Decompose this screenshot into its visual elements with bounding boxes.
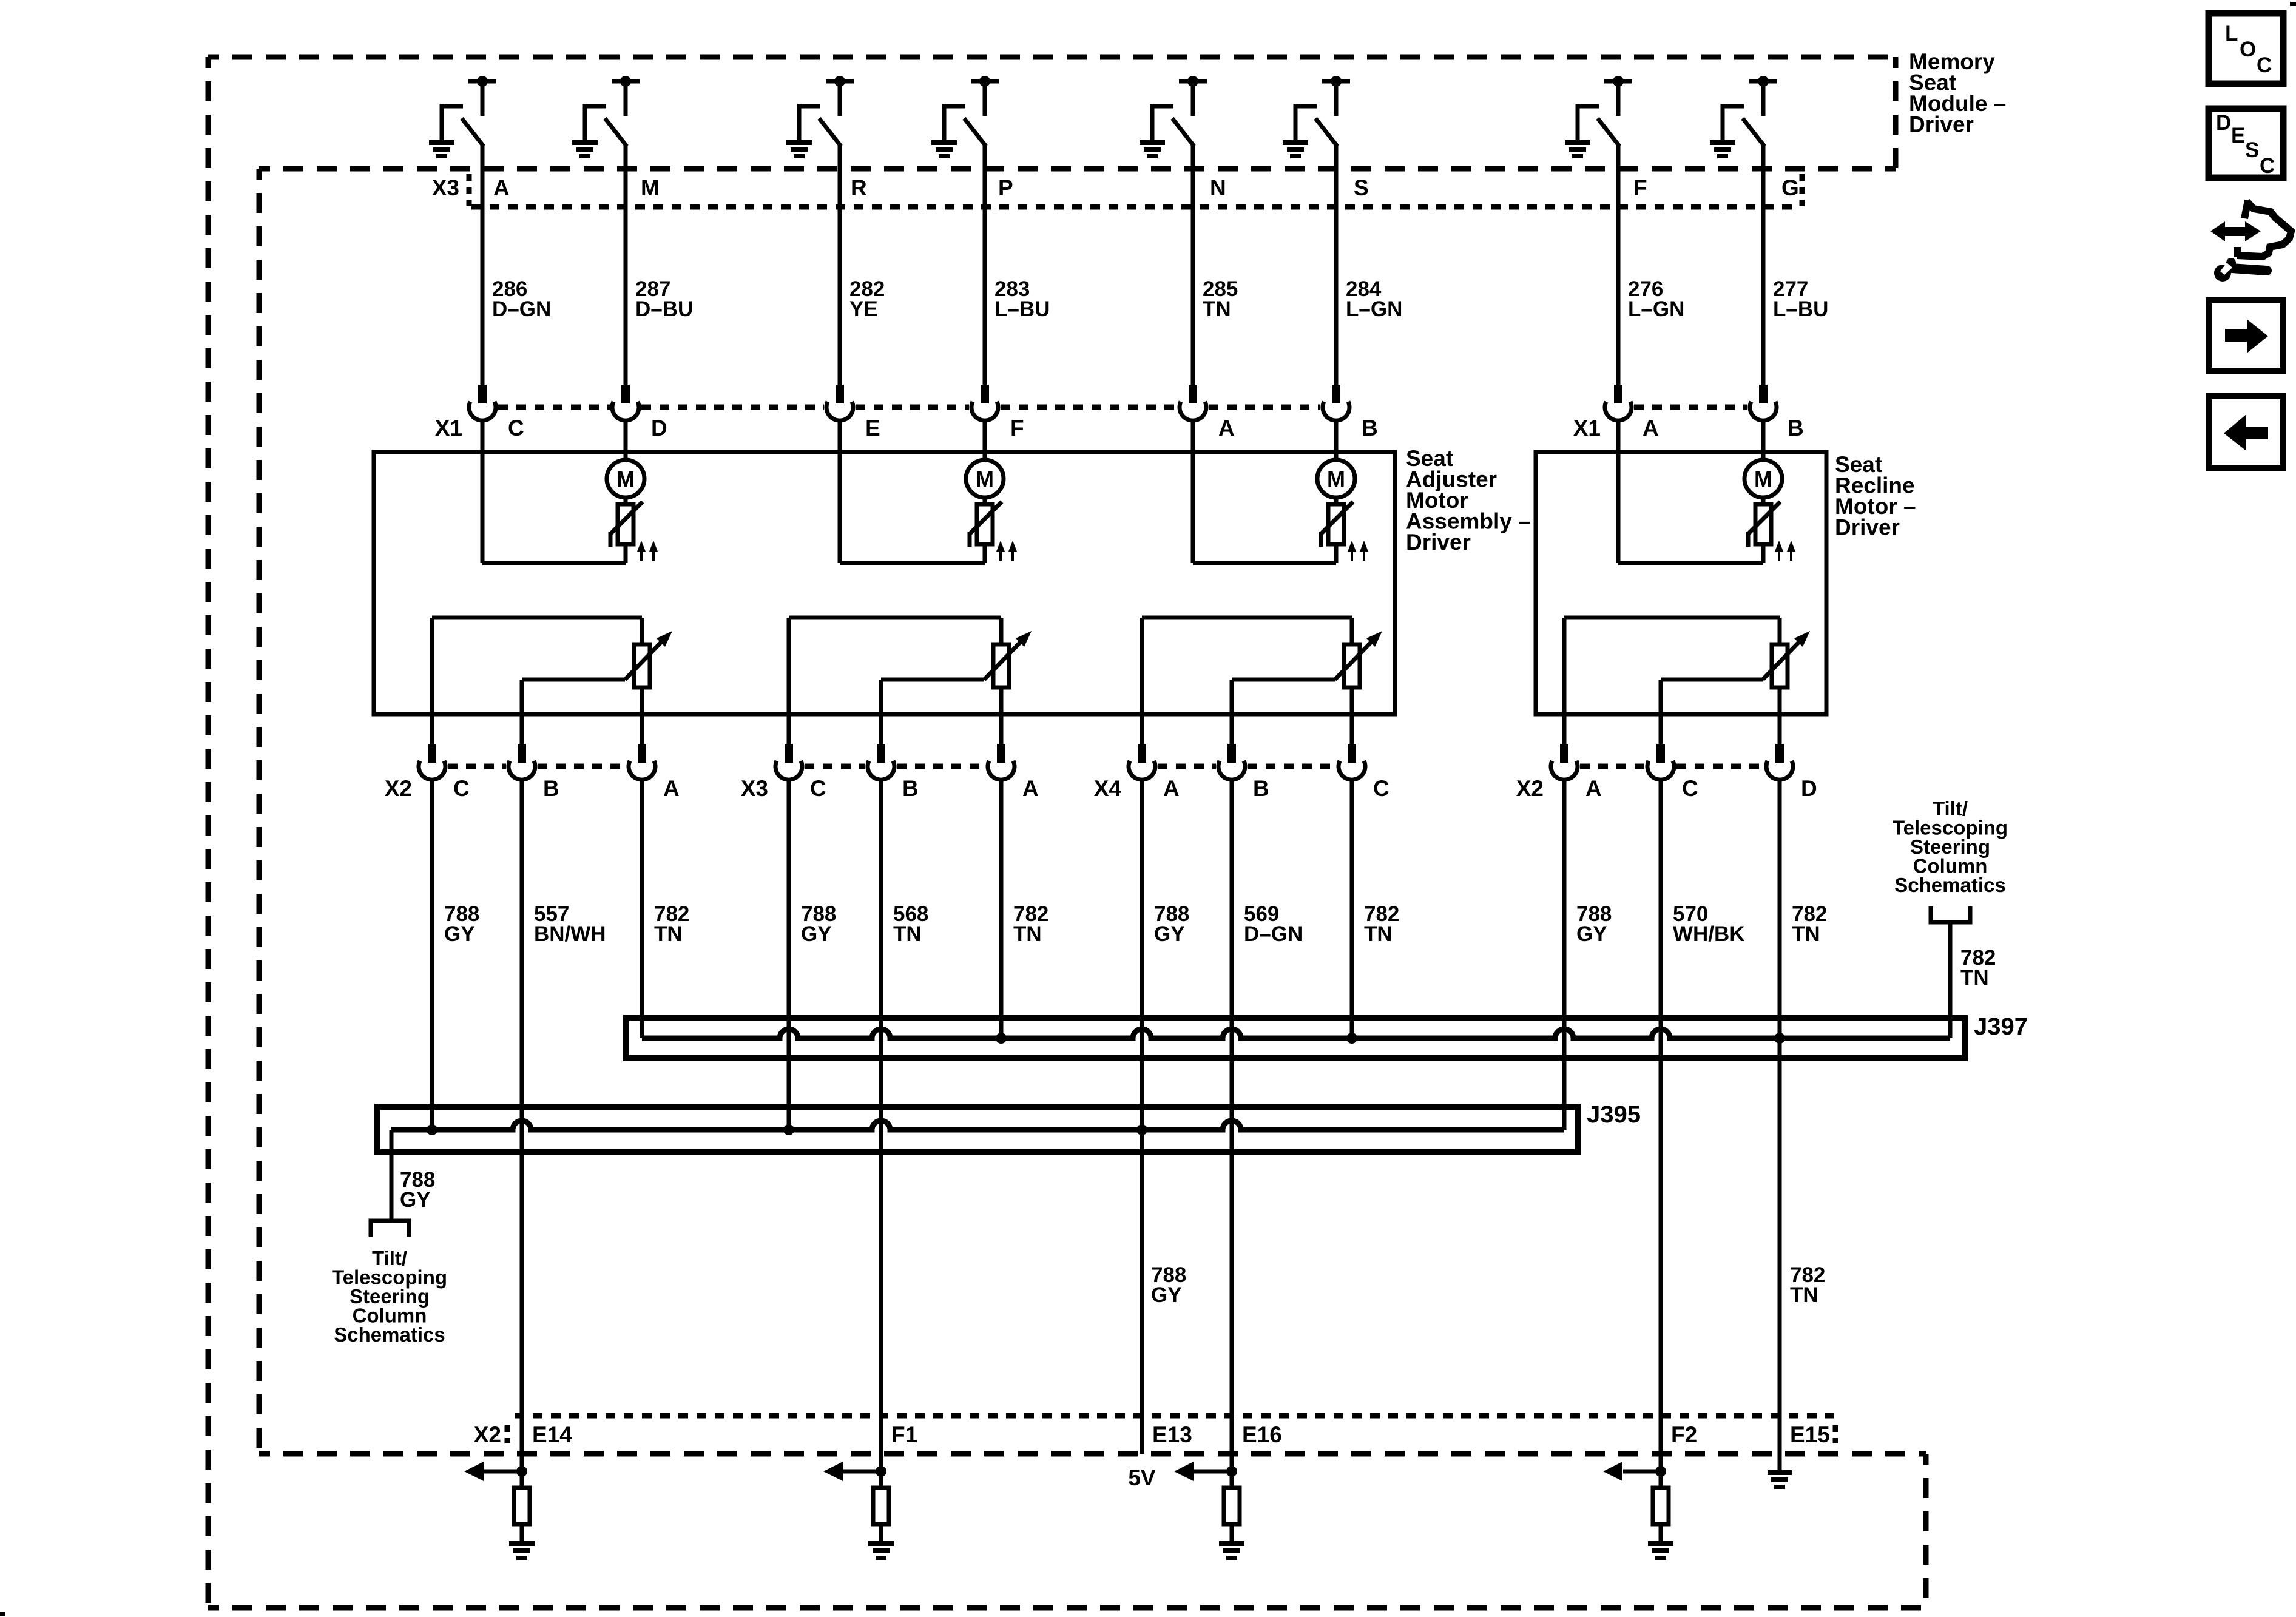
svg-text:Schematics: Schematics xyxy=(334,1323,445,1346)
svg-text:C: C xyxy=(1682,776,1698,801)
svg-text:A: A xyxy=(1643,416,1659,441)
wire 782 TN xyxy=(1778,779,1782,1470)
svg-text:GY: GY xyxy=(1154,922,1185,946)
position sensor potentiometer front height xyxy=(432,618,672,744)
svg-text:D–GN: D–GN xyxy=(492,297,551,321)
svg-text:E13: E13 xyxy=(1152,1422,1192,1447)
motor M horizontal xyxy=(1193,452,1368,563)
wire 283 P to X1 xyxy=(983,144,987,385)
svg-text:GY: GY xyxy=(400,1188,431,1212)
icon box arrow left xyxy=(2209,396,2283,468)
svg-text:BN/WH: BN/WH xyxy=(534,922,606,946)
splice pack J395 xyxy=(377,1107,1578,1152)
wire 276 F to X1 xyxy=(1616,144,1621,385)
svg-text:B: B xyxy=(543,776,559,801)
wire 782 TN xyxy=(999,779,1004,1038)
outer module dashed border bottom xyxy=(208,1605,1926,1611)
svg-text:5V: 5V xyxy=(1128,1465,1156,1490)
svg-text:F: F xyxy=(1010,416,1024,441)
wire 782 TN from tilt/telescoping (right) xyxy=(1948,922,1953,1038)
terminal X1 pin xyxy=(478,385,487,403)
svg-text:X3: X3 xyxy=(432,175,459,200)
svg-text:P: P xyxy=(998,175,1013,200)
svg-text:X2: X2 xyxy=(385,776,412,801)
svg-text:X4: X4 xyxy=(1094,776,1122,801)
svg-text:TN: TN xyxy=(1960,966,1989,990)
svg-text:C: C xyxy=(2260,154,2275,178)
connector X3 dotted row xyxy=(471,204,1797,210)
wire 287 M to X1 xyxy=(624,144,628,385)
terminal X3 pin C xyxy=(785,744,793,763)
switch S8 to ground (pin G) xyxy=(1710,76,1777,158)
svg-text:E: E xyxy=(865,416,880,441)
svg-text:WH/BK: WH/BK xyxy=(1673,922,1745,946)
inner dashed border top xyxy=(259,166,1896,172)
svg-text:S: S xyxy=(2245,138,2259,162)
icon box arrow right xyxy=(2209,300,2283,371)
wire 282 R to X1 xyxy=(838,144,842,385)
svg-text:X2: X2 xyxy=(474,1422,501,1447)
inner dashed border bottom xyxy=(259,1451,1926,1457)
wire 285 N to X1 xyxy=(1191,144,1195,385)
icon box LOC xyxy=(2209,13,2283,84)
connector X3 left bracket tick xyxy=(467,174,472,207)
svg-text:E: E xyxy=(2231,124,2245,147)
terminal X1 pin xyxy=(1189,385,1197,403)
svg-text:C: C xyxy=(453,776,470,801)
svg-text:M: M xyxy=(976,467,994,491)
svg-text:S: S xyxy=(1354,175,1369,200)
svg-text:YE: YE xyxy=(849,297,878,321)
inner dashed border left xyxy=(257,169,262,1454)
connector X3 right bracket tick xyxy=(1800,174,1805,207)
switch S6 to ground (pin S) xyxy=(1283,76,1350,158)
wire 277 G to X1 xyxy=(1761,144,1766,385)
junction on J397 at 2933 xyxy=(1774,1033,1785,1044)
wire 284 S to X1 xyxy=(1334,144,1339,385)
svg-text:C: C xyxy=(810,776,826,801)
connector X2 left bracket tick xyxy=(505,1425,510,1443)
wire 570 WH/BK xyxy=(1659,779,1663,1471)
terminal X2 pin B xyxy=(518,744,526,763)
svg-text:M: M xyxy=(1754,467,1772,491)
svg-text:Schematics: Schematics xyxy=(1894,874,2005,896)
svg-text:J395: J395 xyxy=(1587,1101,1641,1128)
wire 286 A to X1 xyxy=(481,144,485,385)
svg-text:F: F xyxy=(1633,175,1647,200)
terminal X1 pin xyxy=(836,385,844,403)
svg-text:D–GN: D–GN xyxy=(1244,922,1303,946)
switch S4 to ground (pin P) xyxy=(931,76,999,158)
svg-text:D: D xyxy=(1801,776,1817,801)
svg-text:A: A xyxy=(493,175,510,200)
splice pack J397 xyxy=(626,1018,1965,1058)
svg-text:Driver: Driver xyxy=(1835,515,1900,540)
svg-text:O: O xyxy=(2240,38,2256,61)
wire 569 D&#8211;GN xyxy=(1230,779,1234,1471)
svg-text:L–BU: L–BU xyxy=(1773,297,1828,321)
wire 788 GY xyxy=(1140,779,1144,1454)
svg-text:TN: TN xyxy=(1364,922,1393,946)
svg-text:B: B xyxy=(1788,416,1804,441)
off-page connector symbol (right) xyxy=(1931,906,1970,922)
svg-text:A: A xyxy=(1218,416,1235,441)
terminal X4 pin C xyxy=(1348,744,1356,763)
wire 782 TN xyxy=(640,779,644,1038)
svg-text:C: C xyxy=(508,416,524,441)
svg-text:TN: TN xyxy=(654,922,683,946)
terminal X2 pin C xyxy=(428,744,436,763)
icon box DESC xyxy=(2209,109,2283,178)
ground at E15 xyxy=(1768,1470,1792,1489)
switch S1 to ground (pin A) xyxy=(429,76,496,158)
motor M vertical rear xyxy=(840,452,1017,563)
svg-text:E15: E15 xyxy=(1790,1422,1830,1447)
off-page connector symbol (left) xyxy=(371,1221,409,1237)
junction on J397 at 1650 xyxy=(996,1033,1007,1044)
terminal X2 pin C xyxy=(1656,744,1665,763)
junction on J395 at 712 xyxy=(427,1124,437,1135)
wire 788 GY to tilt/telescoping (left) xyxy=(390,1130,394,1221)
svg-text:X3: X3 xyxy=(741,776,768,801)
svg-text:R: R xyxy=(851,175,867,200)
wire 788 GY xyxy=(787,779,791,1130)
svg-text:C: C xyxy=(2257,53,2272,77)
svg-text:B: B xyxy=(1253,776,1269,801)
switch S7 to ground (pin F) xyxy=(1565,76,1632,158)
terminal X1 pin xyxy=(621,385,630,403)
J395 internal bus line xyxy=(391,1121,1564,1130)
switch S5 to ground (pin N) xyxy=(1140,76,1207,158)
wire 782 TN xyxy=(1350,779,1354,1038)
box Seat Recline Motor - Driver xyxy=(1536,452,1826,714)
svg-text:A: A xyxy=(1022,776,1039,801)
connector X2 dotted row (module bottom) xyxy=(515,1413,1834,1419)
svg-text:TN: TN xyxy=(1013,922,1042,946)
svg-text:Driver: Driver xyxy=(1406,530,1471,555)
svg-text:F1: F1 xyxy=(891,1422,917,1447)
svg-text:G: G xyxy=(1781,175,1799,200)
svg-text:D: D xyxy=(651,416,667,441)
svg-text:GY: GY xyxy=(801,922,832,946)
switch S3 to ground (pin R) xyxy=(786,76,854,158)
wire 557 BN/WH xyxy=(520,779,524,1471)
terminal X2 pin D xyxy=(1775,744,1784,763)
motor M recline xyxy=(1618,452,1795,563)
svg-text:X1: X1 xyxy=(1573,416,1601,441)
terminal X1 recline pin xyxy=(1759,385,1768,403)
terminal X4 pin A xyxy=(1138,744,1146,763)
svg-text:L–GN: L–GN xyxy=(1346,297,1402,321)
svg-text:B: B xyxy=(902,776,919,801)
icon connector-view with wrench xyxy=(2210,200,2291,282)
terminal X3 pin B xyxy=(877,744,885,763)
signal arrow + pull resistor + ground at E14 xyxy=(464,1462,535,1560)
svg-text:M: M xyxy=(1327,467,1345,491)
svg-text:TN: TN xyxy=(1790,1283,1818,1307)
signal arrow + pull resistor + ground at F2 xyxy=(1603,1462,1673,1560)
wire 788 GY xyxy=(1562,779,1567,1130)
svg-text:GY: GY xyxy=(444,922,475,946)
position sensor potentiometer rear height xyxy=(789,618,1032,744)
page corner marks xyxy=(2290,2,2296,6)
connector X2 right bracket tick xyxy=(1833,1425,1838,1443)
terminal X1 recline pin xyxy=(1614,385,1622,403)
switch S2 to ground (pin M) xyxy=(572,76,640,158)
junction on J397 at 2228 xyxy=(1346,1033,1357,1044)
svg-text:E16: E16 xyxy=(1242,1422,1282,1447)
svg-text:E14: E14 xyxy=(532,1422,572,1447)
svg-text:L–GN: L–GN xyxy=(1628,297,1684,321)
terminal X2 pin A xyxy=(1560,744,1568,763)
terminal X1 pin xyxy=(981,385,989,403)
svg-text:B: B xyxy=(1362,416,1378,441)
terminal X2 pin A xyxy=(638,744,646,763)
svg-text:L: L xyxy=(2225,22,2238,46)
signal arrow + pull resistor + ground at E16 xyxy=(1174,1462,1244,1560)
svg-text:M: M xyxy=(616,467,635,491)
svg-text:M: M xyxy=(641,175,660,200)
position sensor potentiometer horizontal xyxy=(1142,618,1382,744)
svg-text:J397: J397 xyxy=(1974,1013,2028,1040)
box Seat Adjuster Motor Assembly - Driver xyxy=(374,452,1395,714)
svg-text:GY: GY xyxy=(1151,1283,1182,1307)
svg-text:X2: X2 xyxy=(1516,776,1544,801)
svg-text:C: C xyxy=(1373,776,1389,801)
motor M vertical front xyxy=(482,452,658,563)
svg-text:GY: GY xyxy=(1576,922,1607,946)
position sensor potentiometer recline xyxy=(1564,618,1810,744)
svg-text:L–BU: L–BU xyxy=(994,297,1050,321)
svg-text:TN: TN xyxy=(1792,922,1820,946)
outer module dashed border right upper xyxy=(1893,57,1899,169)
svg-text:TN: TN xyxy=(893,922,922,946)
signal arrow + pull resistor + ground at F1 xyxy=(823,1462,894,1560)
wire 788 GY xyxy=(430,779,434,1130)
svg-text:X1: X1 xyxy=(435,416,462,441)
J397 internal bus line xyxy=(642,1029,1950,1038)
outer module dashed border right lower xyxy=(1923,1454,1929,1608)
svg-text:A: A xyxy=(663,776,680,801)
svg-text:D: D xyxy=(2216,111,2231,135)
svg-text:F2: F2 xyxy=(1671,1422,1697,1447)
svg-text:A: A xyxy=(1585,776,1602,801)
svg-text:TN: TN xyxy=(1203,297,1231,321)
svg-text:Driver: Driver xyxy=(1909,112,1974,137)
outer module dashed border left xyxy=(206,57,211,1608)
junction on J395 at 1882 xyxy=(1136,1124,1147,1135)
outer module dashed border top xyxy=(208,55,1896,60)
terminal X3 pin A xyxy=(997,744,1005,763)
terminal X1 pin xyxy=(1332,385,1340,403)
svg-text:A: A xyxy=(1163,776,1180,801)
wire 568 TN xyxy=(879,779,883,1471)
svg-text:N: N xyxy=(1210,175,1226,200)
svg-text:D–BU: D–BU xyxy=(635,297,693,321)
junction on J395 at 1300 xyxy=(783,1124,794,1135)
terminal X4 pin B xyxy=(1227,744,1236,763)
